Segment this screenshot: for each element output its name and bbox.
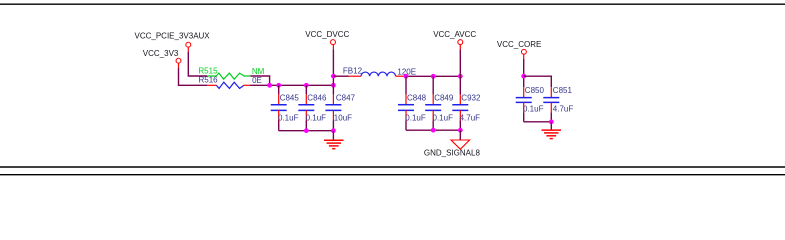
pin 2 C849 <box>432 110 434 120</box>
ground symbol (earth) group 1 <box>324 131 344 149</box>
pin 2 C845 <box>278 110 280 120</box>
pin 1 C845 <box>278 94 280 104</box>
pin 2 C851 <box>550 102 552 112</box>
svg-text:VCC_AVCC: VCC_AVCC <box>433 30 476 39</box>
pin 1 C848 <box>405 94 407 104</box>
wire node to FB12 <box>333 75 348 77</box>
pin 1 C847 <box>332 94 334 104</box>
pin 1 FB12 <box>349 75 362 77</box>
capacitor C847 <box>325 94 341 130</box>
wire bottom lead C846 <box>305 121 307 131</box>
wire top lead C848 <box>405 76 407 94</box>
junction C849 bottom <box>431 128 436 133</box>
wire VCC_PCIE_3V3AUX to R515 pin 1 <box>188 52 207 76</box>
capacitor C850 <box>516 87 532 122</box>
junction C847 bottom / ground <box>331 128 336 133</box>
svg-text:C845: C845 <box>280 93 300 102</box>
svg-text:C847: C847 <box>336 93 356 102</box>
ground symbol GND_SIGNAL8 <box>451 130 470 149</box>
power symbol VCC_CORE <box>497 40 541 59</box>
wire bottom lead C845 <box>278 121 280 131</box>
svg-text:0.1uF: 0.1uF <box>523 105 544 114</box>
pin 2 FB12 <box>396 75 406 77</box>
pin 2 C850 <box>523 102 525 112</box>
pin 1 C850 <box>523 87 525 97</box>
svg-text:C850: C850 <box>525 86 545 95</box>
pin 2 C847 <box>332 110 334 120</box>
sheet border top line <box>0 3 785 5</box>
svg-text:0E: 0E <box>252 76 262 85</box>
svg-text:R516: R516 <box>199 76 219 85</box>
ground symbol (earth) group 3 <box>542 122 562 139</box>
wire bottom ground rail group 1 <box>279 130 334 132</box>
pin 1 C851 <box>550 87 552 97</box>
svg-text:4.7uF: 4.7uF <box>460 114 481 123</box>
sheet border bottom line 1 <box>0 166 785 168</box>
wire VCC_CORE vertical <box>523 59 525 87</box>
wire bottom lead C851 <box>550 112 552 122</box>
wire net VCC_DVCC horizontal rail <box>250 84 333 86</box>
capacitor C849 <box>425 76 441 130</box>
svg-text:VCC_PCIE_3V3AUX: VCC_PCIE_3V3AUX <box>135 32 211 41</box>
power symbol VCC_PCIE_3V3AUX <box>135 32 211 52</box>
plates C846 <box>298 104 314 106</box>
junction VCC_DVCC / FB12 pin 1 <box>331 74 336 79</box>
svg-text:0.1uF: 0.1uF <box>405 114 426 123</box>
plates C850 <box>516 97 532 99</box>
wire bottom lead C849 <box>432 121 434 131</box>
resistor R515 (green, not mounted) <box>207 73 251 79</box>
plates C849 <box>425 104 441 106</box>
wire top lead C845 <box>278 85 280 94</box>
power symbol VCC_AVCC <box>433 30 476 50</box>
svg-text:C849: C849 <box>434 93 454 102</box>
ferrite bead FB12 <box>333 72 405 76</box>
svg-text:C932: C932 <box>461 93 481 102</box>
pin 2 C848 <box>405 110 407 120</box>
capacitor C851 <box>543 87 559 122</box>
plates C932 <box>452 104 468 106</box>
junction C848 top <box>404 74 409 79</box>
wire top lead C849 <box>432 76 434 94</box>
plates C847 <box>325 104 341 106</box>
junction C932 top / VCC_AVCC drop <box>458 74 463 79</box>
power symbol VCC_3V3 <box>143 49 181 68</box>
plates C851 <box>543 97 559 99</box>
wire bottom lead C932 <box>459 121 461 131</box>
pin 1 C849 <box>432 94 434 104</box>
capacitor C845 <box>271 85 287 130</box>
svg-text:VCC_DVCC: VCC_DVCC <box>305 30 349 39</box>
junction R515/R516 outputs <box>267 83 272 88</box>
wire bottom ground rail group 3 <box>524 121 552 123</box>
wire bottom lead C847 <box>332 121 334 131</box>
svg-text:C851: C851 <box>553 86 573 95</box>
capacitor C848 <box>398 76 414 130</box>
wire VCC_CORE node to C851 <box>524 76 552 87</box>
svg-text:0.1uF: 0.1uF <box>433 114 454 123</box>
svg-text:GND_SIGNAL8: GND_SIGNAL8 <box>424 148 481 157</box>
pin 1 C846 <box>305 94 307 104</box>
wire top lead C846 <box>305 85 307 94</box>
power symbol VCC_DVCC <box>305 30 349 50</box>
wire bottom lead C850 <box>523 112 525 122</box>
svg-text:0.1uF: 0.1uF <box>306 114 327 123</box>
pin 2 C932 <box>459 110 461 120</box>
capacitor C846 <box>298 85 314 130</box>
svg-text:FB12: FB12 <box>343 67 363 76</box>
wire bottom lead C848 <box>405 121 407 131</box>
plates C845 <box>271 104 287 106</box>
wire R515 pin 2 down to node <box>250 76 269 85</box>
wire bottom ground rail group 2 <box>406 129 460 131</box>
capacitor C932 <box>452 94 468 130</box>
resistor R516 <box>207 82 250 88</box>
svg-text:R515: R515 <box>198 67 218 76</box>
pin 2 R516 <box>244 84 250 86</box>
svg-text:4.7uF: 4.7uF <box>553 105 574 114</box>
svg-text:C846: C846 <box>307 93 327 102</box>
body R516 <box>216 82 244 88</box>
junction C847 top / VCC_DVCC drop <box>331 83 336 88</box>
svg-text:10uF: 10uF <box>334 114 352 123</box>
junction C845 top <box>276 83 281 88</box>
pin 1 C932 <box>459 94 461 104</box>
svg-text:0.1uF: 0.1uF <box>278 114 299 123</box>
wire VCC_3V3 to R516 pin 1 <box>179 68 208 86</box>
pin 2 C846 <box>305 110 307 120</box>
pin 1 R516 <box>207 84 216 86</box>
wire VCC_AVCC vertical drop to C932 <box>459 49 461 94</box>
junction C846 bottom <box>304 128 309 133</box>
svg-text:C848: C848 <box>407 93 427 102</box>
wire VCC_DVCC vertical drop to C847 <box>332 49 334 94</box>
junction C849 top <box>431 74 436 79</box>
junction C846 top <box>304 83 309 88</box>
junction C932 bottom / GND_SIGNAL8 <box>458 128 463 133</box>
wire net VCC_AVCC horizontal rail <box>406 75 461 77</box>
plates C848 <box>398 104 414 106</box>
svg-text:NM: NM <box>252 67 265 76</box>
body FB12 coil <box>361 72 396 76</box>
junction C851 bottom / ground <box>549 119 554 124</box>
svg-text:VCC_3V3: VCC_3V3 <box>143 49 179 58</box>
sheet border bottom line 2 <box>0 174 785 176</box>
junction VCC_CORE node <box>521 74 526 79</box>
svg-text:VCC_CORE: VCC_CORE <box>497 40 541 49</box>
